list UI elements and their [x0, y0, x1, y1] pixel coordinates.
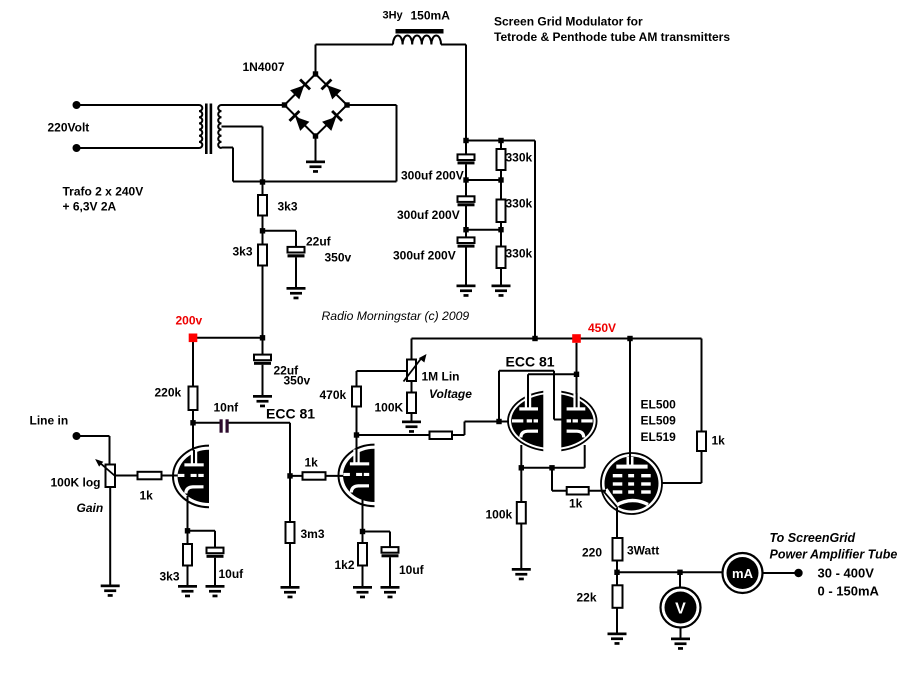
svg-text:ECC 81: ECC 81 [506, 354, 555, 370]
svg-text:1k: 1k [712, 434, 726, 448]
svg-text:3Hy: 3Hy [383, 10, 404, 22]
svg-text:EL500: EL500 [641, 398, 677, 412]
svg-text:22uf: 22uf [306, 235, 332, 249]
svg-text:1k: 1k [569, 497, 583, 511]
svg-text:EL519: EL519 [641, 430, 677, 444]
svg-text:Screen Grid Modulator for: Screen Grid Modulator for [494, 15, 643, 29]
svg-text:To ScreenGrid: To ScreenGrid [770, 531, 856, 545]
svg-text:Tetrode & Penthode tube AM tra: Tetrode & Penthode tube AM transmitters [494, 30, 730, 44]
svg-text:Voltage: Voltage [429, 387, 472, 401]
svg-text:300uf 200V: 300uf 200V [401, 169, 464, 183]
svg-text:100k: 100k [486, 508, 513, 522]
svg-text:300uf 200V: 300uf 200V [393, 249, 456, 263]
svg-text:3Watt: 3Watt [627, 544, 659, 558]
svg-text:EL509: EL509 [641, 414, 677, 428]
svg-text:330k: 330k [506, 247, 533, 261]
svg-text:1k2: 1k2 [335, 558, 355, 572]
svg-text:100K: 100K [375, 401, 404, 415]
svg-text:330k: 330k [506, 197, 533, 211]
svg-text:1k: 1k [140, 489, 154, 503]
svg-text:1M Lin: 1M Lin [422, 370, 460, 384]
svg-text:450V: 450V [588, 321, 616, 335]
svg-text:30 - 400V: 30 - 400V [818, 566, 875, 581]
svg-text:1N4007: 1N4007 [243, 60, 285, 74]
svg-text:350v: 350v [284, 374, 311, 388]
svg-text:3k3: 3k3 [160, 570, 180, 584]
svg-text:Line in: Line in [30, 414, 69, 428]
svg-text:ECC 81: ECC 81 [266, 406, 315, 422]
svg-text:220k: 220k [155, 386, 182, 400]
svg-text:Power Amplifier Tube: Power Amplifier Tube [770, 548, 898, 562]
svg-text:Gain: Gain [77, 501, 104, 515]
svg-text:350v: 350v [325, 251, 352, 265]
svg-text:10uf: 10uf [399, 563, 425, 577]
svg-text:220: 220 [582, 546, 602, 560]
svg-text:V: V [675, 601, 686, 618]
svg-text:10nf: 10nf [214, 401, 240, 415]
svg-text:mA: mA [732, 566, 754, 581]
svg-text:22k: 22k [577, 591, 597, 605]
svg-text:100K log: 100K log [51, 476, 101, 490]
svg-text:3k3: 3k3 [278, 200, 298, 214]
svg-text:Radio Morningstar (c) 2009: Radio Morningstar (c) 2009 [322, 309, 470, 323]
svg-text:1k: 1k [305, 456, 319, 470]
svg-text:10uf: 10uf [219, 567, 245, 581]
svg-text:300uf 200V: 300uf 200V [397, 208, 460, 222]
svg-text:330k: 330k [506, 151, 533, 165]
svg-text:+ 6,3V 2A: + 6,3V 2A [63, 200, 117, 214]
svg-text:Trafo 2 x 240V: Trafo 2 x 240V [63, 185, 144, 199]
svg-text:470k: 470k [320, 388, 347, 402]
svg-text:3k3: 3k3 [233, 245, 253, 259]
svg-text:200v: 200v [176, 314, 203, 328]
svg-text:0 - 150mA: 0 - 150mA [818, 584, 880, 599]
svg-text:150mA: 150mA [411, 9, 451, 23]
svg-text:3m3: 3m3 [301, 527, 325, 541]
svg-text:220Volt: 220Volt [48, 121, 90, 135]
